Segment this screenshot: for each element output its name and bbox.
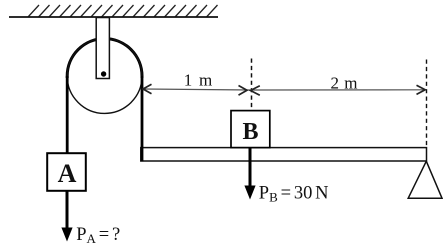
left rope <box>66 76 69 154</box>
svg-text:A: A <box>58 159 77 188</box>
dimension line 2 m <box>251 85 426 95</box>
svg-text:B: B <box>242 119 258 145</box>
ceiling line <box>9 16 218 18</box>
pulley axle dot <box>101 71 106 76</box>
svg-text:1 m: 1 m <box>184 70 214 89</box>
svg-text:2 m: 2 m <box>331 73 358 92</box>
beam <box>141 148 427 161</box>
svg-text:PA = ?: PA = ? <box>76 225 120 246</box>
ceiling hatching <box>28 5 218 17</box>
arrow P_A <box>61 191 72 242</box>
support triangle (fulcrum) <box>408 161 442 198</box>
box A <box>47 153 86 191</box>
dimension line 1 m <box>143 84 252 95</box>
svg-text:PB = 30 N: PB = 30 N <box>259 183 329 204</box>
box B <box>231 111 270 148</box>
right rope <box>141 76 144 162</box>
arrow P_B <box>244 148 255 200</box>
dashed line at support <box>426 60 428 148</box>
pulley bracket <box>96 18 109 79</box>
pulley wheel <box>67 39 142 114</box>
dashed line at B <box>251 59 253 111</box>
rope arc over pulley <box>67 39 142 78</box>
